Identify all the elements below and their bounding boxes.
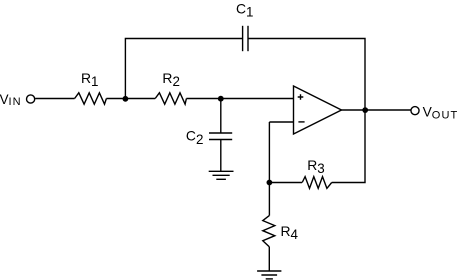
svg-text:VOUT: VOUT bbox=[423, 105, 458, 122]
ground (C2) bbox=[209, 170, 234, 172]
wire R2 to op-amp + input bbox=[186, 98, 293, 100]
wire node A up to C1 bbox=[125, 39, 242, 99]
wire op-amp output bbox=[342, 109, 411, 111]
wire R3 to output branch bbox=[332, 110, 365, 183]
terminal VIN bbox=[27, 95, 35, 103]
wire VIN to R1 bbox=[35, 98, 75, 100]
op-amp - pin mark bbox=[298, 121, 304, 123]
node D (output junction) bbox=[362, 107, 368, 113]
wire R1 to R2 bbox=[106, 98, 155, 100]
svg-text:VIN: VIN bbox=[0, 92, 22, 108]
wire R4 to ground bbox=[268, 247, 270, 271]
wire - input bbox=[269, 121, 293, 123]
resistor R3 bbox=[302, 177, 332, 189]
svg-text:R2: R2 bbox=[162, 70, 180, 89]
resistor R2 bbox=[155, 93, 186, 104]
svg-text:C2: C2 bbox=[186, 128, 204, 147]
wire node C to R3 bbox=[269, 182, 302, 184]
svg-text:R1: R1 bbox=[81, 70, 99, 89]
op-amp U1 bbox=[294, 86, 342, 134]
svg-text:C1: C1 bbox=[236, 1, 254, 20]
wire C1 to output branch bbox=[248, 39, 365, 111]
node B (R2/C2 junction) bbox=[218, 96, 224, 102]
capacitor C1 bbox=[242, 26, 244, 51]
op-amp + pin mark bbox=[298, 94, 304, 100]
node A (R1/R2/C1 junction) bbox=[123, 96, 129, 102]
wire C2 to ground bbox=[220, 140, 222, 172]
terminal VOUT bbox=[411, 107, 419, 115]
node C (R3/R4 junction) bbox=[267, 180, 273, 186]
svg-text:R4: R4 bbox=[281, 223, 299, 242]
capacitor C2 bbox=[209, 132, 232, 134]
wire node B down to C2 bbox=[220, 99, 222, 134]
svg-text:R3: R3 bbox=[307, 157, 325, 176]
resistor R4 bbox=[263, 216, 275, 247]
ground (R4) bbox=[257, 270, 281, 272]
resistor R1 bbox=[75, 93, 107, 104]
wire - input down to node C bbox=[268, 122, 270, 216]
